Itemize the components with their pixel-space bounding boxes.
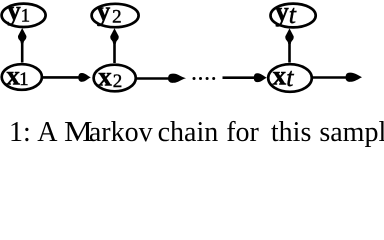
svg-text:y: y	[97, 0, 111, 26]
node y1 ellipse	[2, 4, 46, 27]
svg-text:y: y	[7, 0, 21, 26]
node x2 ellipse	[94, 65, 136, 92]
arrow xt to right : head	[346, 73, 363, 82]
svg-text:1: 1	[19, 69, 29, 90]
node x1 ellipse	[2, 64, 42, 90]
arrow x2 to y2 : head	[110, 28, 118, 44]
svg-text:y: y	[275, 0, 289, 26]
arrow xt to right : shaft	[313, 76, 349, 79]
svg-text:x: x	[273, 61, 287, 91]
node xt ellipse	[268, 64, 312, 92]
arrow x1 to x2 : shaft	[43, 76, 81, 79]
svg-text:1: 1	[21, 6, 31, 27]
arrow x1 to y1 : head	[18, 28, 26, 44]
dots between x2 and xt	[193, 77, 196, 80]
arrow xt to yt : head	[285, 28, 293, 44]
node yt ellipse	[271, 4, 316, 28]
arrow dots to xt : head	[254, 73, 267, 82]
arrow x2 to y2 : shaft	[113, 38, 116, 63]
node y2 ellipse	[92, 4, 139, 27]
arrow x2 to dots : shaft	[137, 77, 172, 80]
arrow dots to xt : shaft	[223, 76, 256, 79]
caption (clipped at bottom)	[9, 117, 384, 149]
arrow x2 to dots : head	[168, 74, 186, 83]
svg-text:t: t	[286, 63, 294, 92]
svg-text:t: t	[289, 0, 297, 29]
arrow xt to yt : shaft	[288, 38, 291, 63]
svg-text:2: 2	[112, 7, 122, 28]
arrow x1 to x2 : head	[78, 73, 91, 82]
arrow x1 to y1 : shaft	[21, 37, 24, 63]
svg-text:2: 2	[113, 71, 123, 92]
svg-text:x: x	[98, 62, 112, 92]
